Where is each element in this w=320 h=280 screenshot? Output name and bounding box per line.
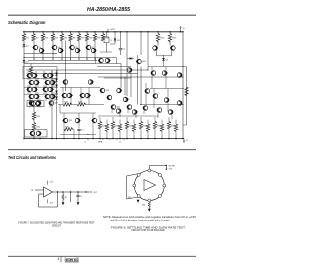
transistor Q14 xyxy=(34,80,39,85)
transistor Q31 xyxy=(80,93,85,98)
wire bus y66.5c xyxy=(97,66,131,68)
svg-text:RL: RL xyxy=(65,197,67,199)
wire scope out xyxy=(149,166,166,170)
junction stub xyxy=(87,59,88,60)
terminal V- xyxy=(183,139,185,141)
transistor Q19b xyxy=(145,89,150,94)
wire right vertical x186 xyxy=(186,67,188,126)
transistor Q41 xyxy=(162,71,167,76)
wire bus y78c xyxy=(104,77,131,79)
transistor Q23 xyxy=(45,94,50,99)
junction stub xyxy=(53,59,54,60)
transistor Q50 xyxy=(30,131,35,136)
transistor Q58 xyxy=(132,110,137,115)
rail stub 3 xyxy=(123,139,125,141)
ground RL xyxy=(62,202,65,205)
wire branch x148 xyxy=(147,31,148,32)
transistor Q12 xyxy=(48,73,53,78)
wire feedback loop xyxy=(39,192,58,207)
resistor top x33.5 xyxy=(33,31,34,32)
svg-text:CIRCUIT: CIRCUIT xyxy=(52,225,62,227)
junction stub xyxy=(43,59,44,60)
junction stub xyxy=(62,59,63,60)
transistor Q13 xyxy=(29,80,34,85)
wire bus y73.5 xyxy=(31,73,138,75)
capacitor CL xyxy=(77,191,78,192)
wire bus y77 xyxy=(98,76,183,78)
wire bus y87.5mid xyxy=(60,87,100,89)
transistor Q50c xyxy=(117,88,122,93)
wire vert x125 xyxy=(124,78,126,95)
footer divider bar xyxy=(60,256,62,262)
transistor Q17 xyxy=(27,87,32,92)
diode chain diode xyxy=(55,91,58,93)
wire x64 down xyxy=(63,129,65,138)
transistor Q9 xyxy=(27,73,32,78)
wire branch x127 xyxy=(126,31,127,32)
transistor Q50d xyxy=(123,97,128,102)
wire bus y60.5 xyxy=(28,60,97,62)
capacitor C2 xyxy=(120,31,121,32)
svg-text:4: 4 xyxy=(58,257,60,261)
terminal V+ xyxy=(180,31,181,32)
svg-text:CIRCUIT FOR TO-99 PACKAGE: CIRCUIT FOR TO-99 PACKAGE xyxy=(131,229,165,232)
svg-text:C1: C1 xyxy=(110,40,112,42)
transistor Q11 xyxy=(43,73,48,78)
svg-text:Test Circuits and Waveforms: Test Circuits and Waveforms xyxy=(8,155,56,160)
transistor Q4 xyxy=(58,48,63,53)
box around input stage xyxy=(23,67,57,79)
wire bus y66.5 right xyxy=(148,66,183,68)
resistor R23 xyxy=(106,120,108,125)
zener diode D1 xyxy=(23,40,25,44)
transistor Q6 xyxy=(75,48,80,53)
transistor Q27 xyxy=(49,101,54,106)
wire cluster bus xyxy=(24,86,56,88)
resistor top x53 xyxy=(52,31,53,32)
transistor Q47 xyxy=(177,101,182,106)
junction stub xyxy=(70,59,71,60)
transistor Q50a xyxy=(100,88,105,93)
transistor Q20 xyxy=(48,87,53,92)
resistor R24 xyxy=(112,117,114,122)
transistor Q28b xyxy=(63,80,68,85)
svg-text:+VCC: +VCC xyxy=(110,29,116,31)
ground right xyxy=(148,207,150,209)
transistor Q21 xyxy=(29,94,34,99)
resistor R25 xyxy=(119,120,121,125)
junction stub xyxy=(95,59,96,60)
svg-text:CL: CL xyxy=(80,196,82,198)
resistor R33 xyxy=(175,120,177,125)
svg-text:V-: V- xyxy=(186,140,188,142)
transistor Q26 xyxy=(36,101,41,106)
wire bus y57.5 xyxy=(24,57,96,59)
transistor Q33c xyxy=(137,59,142,64)
footer rule xyxy=(8,255,196,257)
diode chain diode xyxy=(55,73,58,75)
terminal scope out 1 xyxy=(166,165,167,166)
header rule xyxy=(8,14,196,16)
transistor Q19 xyxy=(43,87,48,92)
wire vin loop xyxy=(127,174,138,199)
transistor Q48 xyxy=(31,101,36,106)
transistor Q39 xyxy=(171,46,176,51)
diode D3 xyxy=(114,31,115,32)
resistor top x24 xyxy=(23,31,24,32)
transistor Q1 xyxy=(33,45,38,50)
wire cluster bus2 xyxy=(24,94,58,96)
wire branch x141 xyxy=(140,31,141,32)
op-amp U1 xyxy=(44,187,53,197)
transistor Q2 xyxy=(39,48,44,53)
transistor Q52 xyxy=(63,118,68,123)
wire ostage vert xyxy=(59,105,61,114)
DUT package circle xyxy=(134,171,164,201)
wire +V stub xyxy=(47,181,49,185)
package pins xyxy=(148,169,151,172)
resistor R30 xyxy=(154,117,156,122)
svg-text:Schematic Diagram: Schematic Diagram xyxy=(8,20,46,25)
wire bus y134.5 xyxy=(60,134,96,136)
diode D2 xyxy=(23,57,24,58)
transistor Q3 xyxy=(52,45,57,50)
transistor Q59 xyxy=(143,106,148,111)
wire x52 down xyxy=(51,70,53,139)
ground vin xyxy=(137,200,140,203)
wire top V+ rail xyxy=(23,31,183,33)
diode chain diode xyxy=(55,97,58,99)
svg-text:NOTE: Measured on both positi: NOTE: Measured on both positive and nega… xyxy=(103,216,197,219)
rail stub 1 xyxy=(109,139,111,141)
diode chain xyxy=(56,70,58,104)
resistor top x70.5 xyxy=(70,31,71,32)
transistor Q10 xyxy=(32,73,37,78)
transistor Q42 xyxy=(153,94,158,99)
junction out xyxy=(85,191,86,192)
wire bus y63.5b xyxy=(117,63,122,65)
transistor Q15 xyxy=(45,80,50,85)
transistor Q38 xyxy=(153,46,158,51)
resistor top x103 xyxy=(102,31,103,32)
svg-text:FIGURE 8. SETTLING TIME AND S: FIGURE 8. SETTLING TIME AND SLEW RATE TE… xyxy=(111,226,186,229)
svg-text:FIGURE 7. SUGGESTED SLEW RATE: FIGURE 7. SUGGESTED SLEW RATE AND TRANSI… xyxy=(19,222,96,225)
transistor Q56 xyxy=(116,109,121,114)
ground CL xyxy=(77,202,80,205)
resistor top x95 xyxy=(94,31,95,32)
wire probe xyxy=(70,191,71,192)
resistor R29 xyxy=(147,120,149,125)
resistor R2 small xyxy=(30,64,32,68)
transistor Q30 xyxy=(67,93,72,98)
transistor Q45 xyxy=(168,110,173,115)
svg-text:HA-2850/HA-2855: HA-2850/HA-2855 xyxy=(87,7,131,13)
transistor Q18 xyxy=(32,87,37,92)
transistor Q57 xyxy=(127,105,132,110)
svg-text:-VEE: -VEE xyxy=(98,142,103,144)
resistor R26 xyxy=(126,117,128,122)
wire bus y70 xyxy=(26,69,148,71)
capacitor C4 xyxy=(78,127,80,130)
wire x56.5 down xyxy=(56,104,58,139)
resistor R15 xyxy=(64,128,73,131)
transistor Q7 xyxy=(86,45,91,50)
transistor Q55 xyxy=(111,105,116,110)
transistor Q46 xyxy=(177,73,182,78)
wire vert x65.5 xyxy=(65,40,67,91)
resistor top x79 xyxy=(78,31,79,32)
wire bottom xyxy=(148,201,150,203)
junction stub xyxy=(34,59,35,60)
transistor Q44 xyxy=(157,108,162,113)
wire bus y53.5 xyxy=(24,53,57,55)
transistor Q22 xyxy=(34,94,39,99)
resistor R27 xyxy=(133,120,135,125)
terminal scope out 2 xyxy=(166,168,167,169)
wire bus y104.5 right xyxy=(140,104,183,106)
transistor Q28c xyxy=(88,80,93,85)
transistor Q51 xyxy=(36,131,41,136)
transistor Q24 xyxy=(50,94,55,99)
resistor R load xyxy=(148,202,150,207)
transistor Q33d xyxy=(127,68,132,73)
resistor top x62 xyxy=(61,31,62,32)
transistor Q16 xyxy=(50,80,55,85)
transistor Q5 xyxy=(70,45,75,50)
wire -V stub xyxy=(47,199,49,203)
svg-text:and 0V to -2.5V at the output.: and 0V to -2.5V at the output. Load circ… xyxy=(111,219,171,222)
transistor Q50b xyxy=(107,95,112,100)
svg-text:SCOPE: SCOPE xyxy=(169,166,176,168)
resistor R11 xyxy=(33,107,35,112)
transistor Q25 xyxy=(29,101,34,106)
wire bus y88.5 right xyxy=(150,88,183,90)
diode chain diode xyxy=(55,85,58,87)
wire bus y116 xyxy=(98,115,158,117)
wire output xyxy=(53,191,93,193)
rail stub 2 xyxy=(116,139,118,141)
rail stub 4 xyxy=(87,139,89,141)
resistor RL xyxy=(62,191,63,192)
junction stub xyxy=(79,59,80,60)
svg-text:intersil: intersil xyxy=(65,257,79,262)
resistor top x43 xyxy=(42,31,43,32)
wire bus y63.5 xyxy=(24,63,96,65)
wire vert x121 xyxy=(120,64,122,89)
transistor Q53 xyxy=(75,118,80,123)
capacitor C1 box xyxy=(106,31,107,32)
transistor Q49 xyxy=(36,101,41,106)
wire right vertical x183 xyxy=(182,32,184,139)
box tail stage xyxy=(96,58,117,64)
resistor R22 xyxy=(99,117,101,122)
transistor Q40 xyxy=(151,71,156,76)
op-amp U2 xyxy=(144,180,156,191)
resistor R31 xyxy=(161,120,163,125)
resistor R21 xyxy=(169,31,170,32)
transistor Q32 xyxy=(85,93,90,98)
transistor Q25 xyxy=(99,58,104,63)
transistor Q8 xyxy=(91,48,96,53)
section divider rule xyxy=(8,149,196,151)
diode chain diode xyxy=(55,79,58,81)
diode D5 horizontal xyxy=(130,57,133,60)
resistor R13 xyxy=(58,104,63,106)
wire bottom V- rail xyxy=(24,138,184,140)
resistor R20 xyxy=(157,31,158,32)
transistor Q29 xyxy=(62,93,67,98)
box bl1 xyxy=(27,101,44,107)
resistor R28 xyxy=(140,117,142,122)
resistor top x87 xyxy=(86,31,87,32)
resistor R14 xyxy=(71,104,77,106)
resistor right edge xyxy=(185,87,188,96)
resistor R32 xyxy=(168,117,170,122)
resistor R12 xyxy=(32,123,35,131)
transistor Q43 xyxy=(164,98,169,103)
diode D4 xyxy=(163,56,165,58)
transistor Q54 xyxy=(92,118,97,123)
node +VCC stub xyxy=(107,31,108,32)
transistor Q26 xyxy=(105,58,110,63)
wire mirror join xyxy=(157,55,172,57)
box bl2 xyxy=(25,130,48,137)
